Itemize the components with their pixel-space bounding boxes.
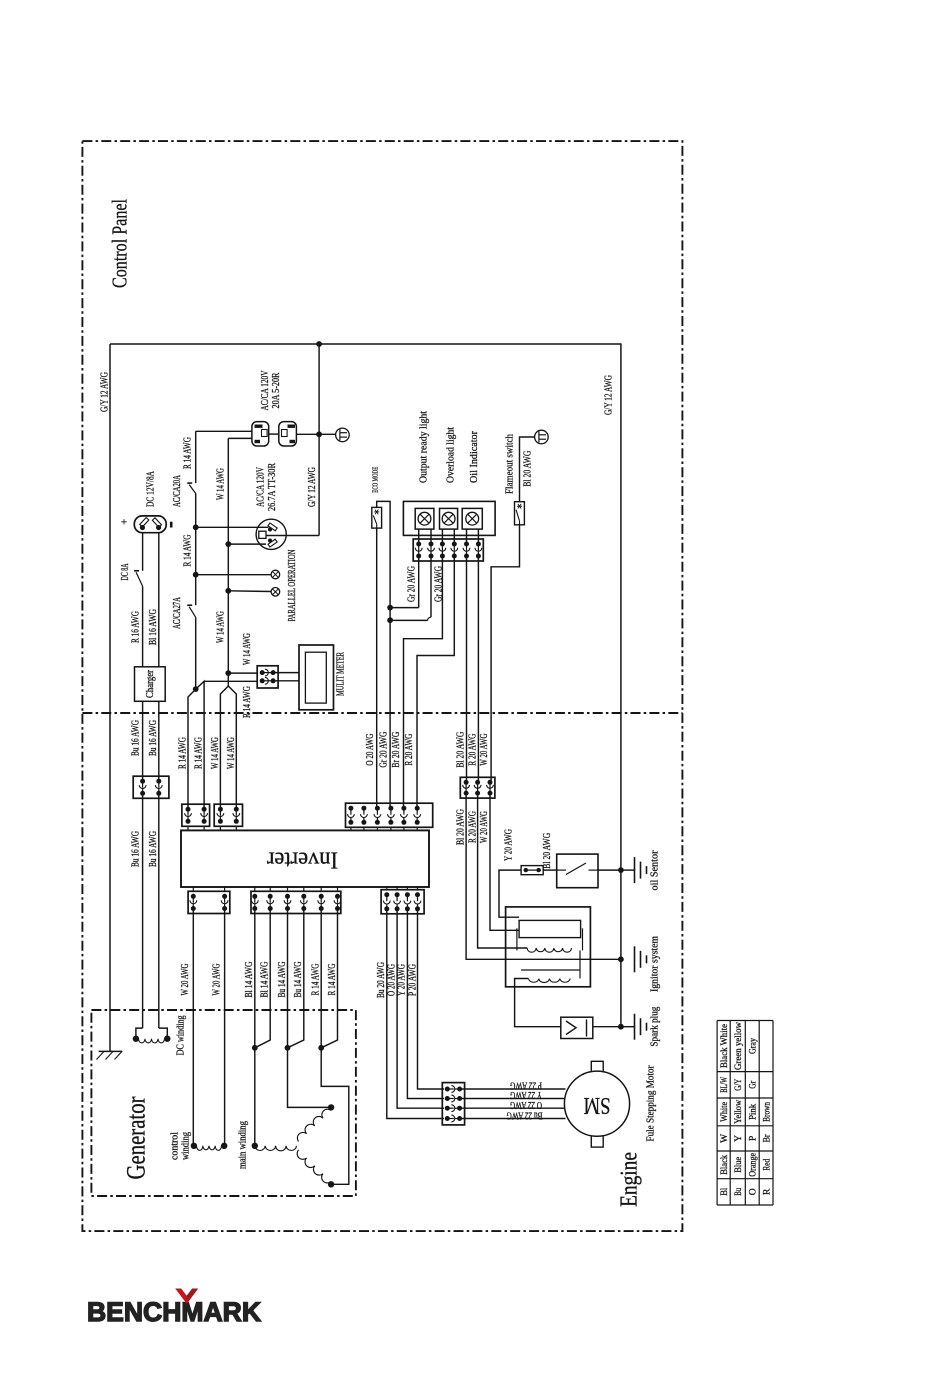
svg-text:W 14 AWG: W 14 AWG	[215, 468, 227, 500]
svg-text:winding: winding	[180, 1132, 191, 1160]
svg-text:G/Y 12 AWG: G/Y 12 AWG	[306, 467, 318, 507]
svg-text:Flameout switch: Flameout switch	[504, 434, 516, 494]
svg-text:Bl 14 AWG: Bl 14 AWG	[243, 961, 255, 997]
svg-text:Output ready light: Output ready light	[418, 411, 430, 483]
svg-text:R 14 AWG: R 14 AWG	[193, 737, 205, 769]
svg-text:AC/CA 120V: AC/CA 120V	[255, 467, 267, 507]
svg-text:Y 20 AWG: Y 20 AWG	[502, 829, 514, 861]
svg-text:Bl 16 AWG: Bl 16 AWG	[147, 609, 159, 645]
svg-text:Engine: Engine	[617, 1152, 643, 1207]
svg-text:Black: Black	[720, 1155, 730, 1175]
svg-text:PARALLEL OPERATION: PARALLEL OPERATION	[286, 549, 298, 621]
svg-text:W 20 AWG: W 20 AWG	[211, 963, 223, 995]
svg-text:R 14 AWG: R 14 AWG	[177, 737, 189, 769]
svg-text:Bu 14 AWG: Bu 14 AWG	[276, 961, 288, 997]
svg-text:Ignitor system: Ignitor system	[649, 936, 661, 992]
svg-text:Bl 20 AWG: Bl 20 AWG	[522, 451, 534, 487]
svg-text:W 14 AWG: W 14 AWG	[215, 611, 227, 643]
svg-text:Bu 22 AWG: Bu 22 AWG	[506, 1109, 542, 1120]
svg-text:MULIT METER: MULIT METER	[334, 652, 346, 696]
svg-text:Bu 16 AWG: Bu 16 AWG	[147, 720, 159, 756]
svg-text:Inverter: Inverter	[267, 847, 338, 873]
svg-text:Fule Stepping Motor: Fule Stepping Motor	[645, 1065, 657, 1141]
svg-text:AC/CA27A: AC/CA27A	[171, 597, 183, 629]
svg-text:R 20 AWG: R 20 AWG	[466, 734, 478, 766]
svg-text:Orange: Orange	[748, 1153, 758, 1177]
svg-text:Y 22 AWG: Y 22 AWG	[510, 1089, 542, 1100]
svg-text:Bu: Bu	[734, 1188, 744, 1196]
svg-text:Overload light: Overload light	[444, 427, 456, 483]
svg-text:20A 5-20R: 20A 5-20R	[270, 372, 282, 408]
svg-text:P: P	[748, 1136, 758, 1141]
svg-text:Bl 20 AWG: Bl 20 AWG	[541, 833, 553, 869]
svg-text:Yellow: Yellow	[734, 1100, 744, 1124]
svg-text:+: +	[121, 517, 127, 529]
svg-text:26.7A TT-30R: 26.7A TT-30R	[266, 463, 278, 511]
svg-text:W 20 AWG: W 20 AWG	[179, 963, 191, 995]
svg-text:Br 20 AWG: Br 20 AWG	[390, 732, 402, 768]
svg-text:control: control	[169, 1132, 180, 1160]
svg-text:Control Panel: Control Panel	[107, 199, 131, 288]
svg-text:G/Y: G/Y	[734, 1079, 744, 1091]
svg-text:G/Y 12 AWG: G/Y 12 AWG	[99, 372, 111, 412]
svg-text:Br: Br	[762, 1134, 772, 1143]
svg-text:P 22 AWG: P 22 AWG	[510, 1080, 542, 1091]
svg-text:Spark plug: Spark plug	[649, 1006, 661, 1046]
svg-text:Oil Indicator: Oil Indicator	[468, 431, 480, 483]
svg-text:W 14 AWG: W 14 AWG	[209, 737, 221, 769]
svg-text:O: O	[748, 1188, 758, 1195]
svg-text:AC/CA20A: AC/CA20A	[171, 475, 183, 507]
svg-text:Black White: Black White	[720, 1024, 730, 1068]
svg-text:BENCHMARK: BENCHMARK	[87, 1297, 261, 1327]
svg-text:Green yellow: Green yellow	[734, 1022, 744, 1070]
svg-text:W 20 AWG: W 20 AWG	[478, 811, 490, 843]
svg-text:Brown: Brown	[762, 1102, 772, 1122]
svg-text:W 20 AWG: W 20 AWG	[478, 734, 490, 766]
svg-text:R: R	[762, 1188, 772, 1195]
svg-text:Charger: Charger	[145, 669, 156, 698]
svg-text:W 14 AWG: W 14 AWG	[225, 737, 237, 769]
svg-text:W: W	[720, 1134, 730, 1143]
svg-text:Bl: Bl	[720, 1187, 730, 1195]
svg-text:R 14 AWG: R 14 AWG	[182, 534, 194, 566]
svg-text:Bl 14 AWG: Bl 14 AWG	[259, 961, 271, 997]
svg-text:DC 8A: DC 8A	[120, 563, 131, 580]
svg-text:Bu 16 AWG: Bu 16 AWG	[130, 831, 142, 867]
svg-text:White: White	[720, 1102, 730, 1122]
svg-text:Gray: Gray	[748, 1038, 758, 1054]
svg-text:SM: SM	[584, 1092, 611, 1118]
svg-text:main winding: main winding	[237, 1121, 249, 1169]
svg-text:Gr 20 AWG: Gr 20 AWG	[378, 732, 390, 768]
svg-text:Bu 16 AWG: Bu 16 AWG	[130, 720, 142, 756]
svg-text:W 14 AWG: W 14 AWG	[241, 633, 253, 665]
svg-text:R 14 AWG: R 14 AWG	[326, 963, 338, 995]
svg-text:R 20 AWG: R 20 AWG	[466, 811, 478, 843]
svg-text:R 14 AWG: R 14 AWG	[310, 963, 322, 995]
svg-text:Bu 16 AWG: Bu 16 AWG	[147, 831, 159, 867]
svg-text:Gr 20 AWG: Gr 20 AWG	[432, 566, 444, 602]
svg-text:oil Sentor: oil Sentor	[649, 850, 661, 890]
svg-text:R 20 AWG: R 20 AWG	[403, 734, 415, 766]
svg-text:R 16 AWG: R 16 AWG	[130, 611, 142, 643]
svg-text:O 22 AWG: O 22 AWG	[510, 1099, 542, 1110]
svg-text:Red: Red	[762, 1159, 772, 1171]
svg-text:P 20 AWG: P 20 AWG	[406, 964, 418, 996]
svg-text:Gr: Gr	[748, 1080, 758, 1089]
svg-text:G/Y 12 AWG: G/Y 12 AWG	[602, 375, 614, 415]
svg-text:O 20 AWG: O 20 AWG	[364, 734, 376, 766]
svg-text:Bl 20 AWG: Bl 20 AWG	[455, 809, 467, 845]
svg-text:R 14 AWG: R 14 AWG	[241, 686, 253, 718]
svg-text:Pink: Pink	[748, 1104, 758, 1120]
svg-text:Bl 20 AWG: Bl 20 AWG	[455, 732, 467, 768]
svg-text:DC 12V/8A: DC 12V/8A	[145, 471, 157, 507]
svg-text:BL/W: BL/W	[720, 1077, 730, 1093]
svg-text:Blue: Blue	[734, 1157, 744, 1173]
svg-text:Generator: Generator	[121, 1096, 150, 1179]
svg-text:Y: Y	[734, 1135, 744, 1142]
svg-text:DC winding: DC winding	[174, 1015, 186, 1055]
svg-text:Bu 14 AWG: Bu 14 AWG	[292, 961, 304, 997]
svg-text:Gr 20 AWG: Gr 20 AWG	[406, 566, 418, 602]
svg-text:ECO MODE: ECO MODE	[370, 466, 379, 492]
svg-text:R 14 AWG: R 14 AWG	[182, 437, 194, 469]
